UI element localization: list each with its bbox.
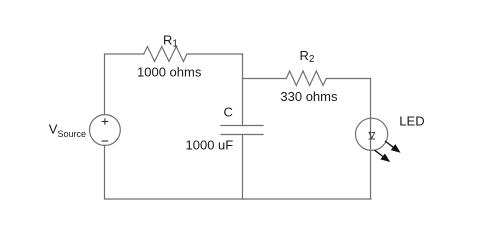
wire top horizontal to node (187, 53, 243, 55)
voltage source plus sign (102, 118, 108, 124)
voltage source minus sign (102, 140, 108, 142)
capacitor C plates (221, 126, 263, 135)
svg-text:LED: LED (399, 114, 424, 129)
LED light arrow upper (385, 141, 399, 152)
svg-text:1000 ohms: 1000 ohms (137, 65, 202, 80)
wire right vertical through LED (370, 79, 372, 200)
wire R2 to right corner (326, 78, 370, 80)
LED diode symbol (369, 132, 376, 139)
resistor R2 (286, 71, 326, 86)
LED light arrow lower (375, 150, 389, 161)
wire middle vertical upper (node to capacitor) (242, 54, 244, 126)
wire middle vertical lower (capacitor to bottom) (242, 135, 244, 200)
svg-text:1000 uF: 1000 uF (186, 137, 234, 152)
wire top-left horizontal segment (105, 53, 144, 55)
svg-text:C: C (224, 105, 233, 120)
svg-text:330 ohms: 330 ohms (280, 89, 338, 104)
resistor R1 (144, 47, 187, 62)
voltage source V_Source circle (90, 115, 121, 146)
wire R2 branch left segment (243, 78, 287, 80)
wire bottom horizontal (105, 198, 372, 200)
LED circle (356, 118, 388, 150)
wire left vertical lower (source to bottom) (104, 145, 106, 199)
wire left vertical upper (corner to source) (104, 54, 106, 115)
